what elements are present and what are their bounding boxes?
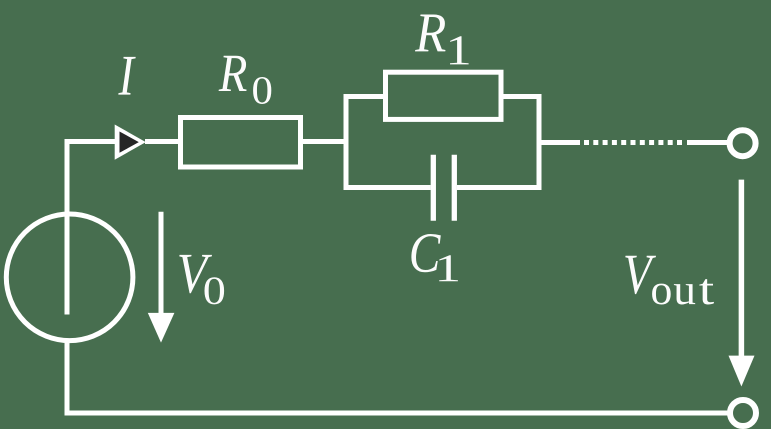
label C1	[411, 234, 458, 281]
current arrow I (white outline, dark fill)	[115, 125, 146, 160]
wire parallel block left vertical	[344, 94, 349, 190]
wire parallel block right vertical	[537, 94, 542, 190]
label R1	[415, 14, 469, 64]
capacitor C1	[433, 155, 454, 221]
wire left vertical (below source circle to bottom rail)	[65, 341, 70, 413]
terminal node bottom right (open circle)	[730, 400, 756, 426]
wire left vertical (top rail corner down into source circle)	[65, 139, 70, 315]
arrow Vout (voltage direction)	[729, 180, 755, 387]
resistor R0	[181, 118, 301, 168]
wire top rail (corner to current arrow)	[65, 139, 119, 144]
wire dotted segment	[584, 140, 684, 145]
label Vout	[625, 256, 714, 305]
label I	[118, 57, 135, 95]
terminal node top right (open circle)	[730, 130, 756, 156]
wire bottom rail	[65, 411, 729, 416]
wire top branch right (R1 to right vertical)	[501, 94, 542, 99]
wire R0 to parallel block	[303, 139, 349, 144]
arrow V0 (voltage direction)	[148, 212, 175, 343]
voltage source V0 (circle)	[6, 214, 133, 341]
wire right solid segment after block	[537, 140, 581, 145]
wire right solid segment to terminal	[687, 140, 727, 145]
label V0	[179, 255, 224, 305]
wire from arrow tip to R0	[145, 139, 180, 144]
label R0	[219, 56, 272, 104]
wire bottom branch right (C1 to right vertical)	[457, 185, 542, 190]
resistor R1	[386, 72, 502, 119]
wire top branch left (to R1)	[344, 94, 386, 99]
wire bottom branch left (to C1)	[344, 185, 431, 190]
